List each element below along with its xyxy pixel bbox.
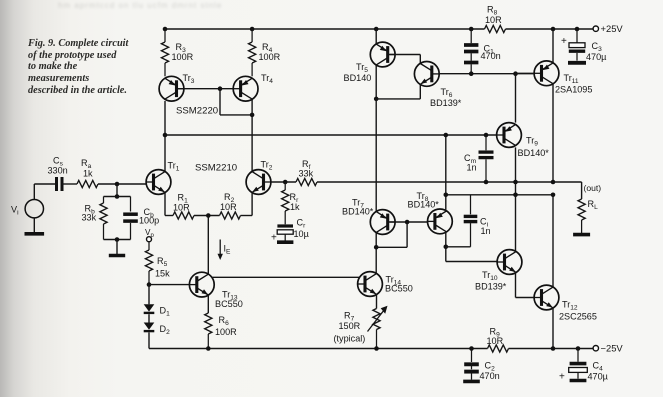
wire Tr5-collector node down to Tr7 emitter xyxy=(375,99,377,212)
transistor Tr10 BD139* (NPN) xyxy=(475,250,522,292)
svg-text:330n: 330n xyxy=(48,166,68,176)
diode D2 xyxy=(144,323,170,337)
wire Tr10 emitter to Tr12 base xyxy=(516,272,535,297)
node Tr3 collector / Tr9 base line xyxy=(163,133,168,138)
transistor Tr9 BD140* (PNP) xyxy=(497,123,550,158)
svg-text:SSM2210: SSM2210 xyxy=(195,163,237,174)
transistor Tr4 (SSM2220 PNP) xyxy=(233,73,273,101)
capacitor C2 470n xyxy=(463,349,500,382)
resistor Rb 33k xyxy=(82,197,108,240)
source Vi xyxy=(11,200,44,218)
wire out tap xyxy=(553,182,582,199)
wire Tr1 emitter down xyxy=(165,192,173,215)
svg-text:BD140*: BD140* xyxy=(518,148,550,158)
svg-text:10µ: 10µ xyxy=(294,229,310,239)
terminal +25V xyxy=(593,23,623,34)
node rail/C3 xyxy=(575,27,580,32)
capacitor Cs 330n xyxy=(48,156,68,192)
capacitor Cb 100p xyxy=(123,197,159,240)
svg-text:10R: 10R xyxy=(220,202,237,212)
wire Tr11 collector down to output xyxy=(552,84,554,183)
wire +25V rail xyxy=(165,28,593,30)
capacitor Ci 1n xyxy=(464,195,491,247)
terminal Vp xyxy=(145,228,154,242)
svg-text:2SA1095: 2SA1095 xyxy=(555,84,592,94)
resistor RL xyxy=(578,199,598,233)
svg-text:(typical): (typical) xyxy=(334,333,366,343)
svg-text:BD140*: BD140* xyxy=(408,199,440,209)
node C1 bottom xyxy=(469,71,474,76)
node network bottom xyxy=(115,237,120,242)
resistor Rr 1k xyxy=(282,182,300,224)
wire Vi to ground xyxy=(33,218,35,233)
node Tr4 collector junction xyxy=(250,113,255,118)
svg-text:100R: 100R xyxy=(215,327,237,337)
svg-text:1k: 1k xyxy=(83,168,93,178)
node Tr9 collector / line1 xyxy=(513,180,518,185)
wire rail to Tr5 emitter xyxy=(375,29,377,44)
wire Rf to output node (long) xyxy=(317,181,553,183)
ground below RL xyxy=(573,233,590,237)
resistor R6 100R xyxy=(205,313,237,349)
svg-text:1n: 1n xyxy=(467,162,477,172)
resistor Ra 1k xyxy=(62,158,146,188)
wire Tr8 emitter up to Tr9-base line xyxy=(445,135,447,211)
node rail/Tr5 emitter xyxy=(374,27,379,32)
transistor Tr13 BC550 xyxy=(189,272,242,309)
node rail/R7 xyxy=(374,346,379,351)
wire tap down to Rb/Cb network xyxy=(116,184,118,197)
capacitor C4 470u electrolytic xyxy=(559,349,609,383)
svg-text:10R: 10R xyxy=(485,15,502,25)
resistor R9 10R xyxy=(487,327,509,353)
node rail/C4 xyxy=(576,346,581,351)
wire line2 Tr8 emitter to output xyxy=(446,194,553,196)
svg-text:Tr4: Tr4 xyxy=(261,73,273,85)
node rail/C2 xyxy=(469,346,474,351)
wire Tr12 emitter to -25V rail xyxy=(552,308,554,349)
node rail/R3 xyxy=(163,27,168,32)
node rail/R6 xyxy=(206,346,211,351)
svg-text:100p: 100p xyxy=(139,216,159,226)
wire network bottom to ground xyxy=(116,240,118,255)
svg-text:10R: 10R xyxy=(487,336,504,346)
svg-text:470µ: 470µ xyxy=(586,52,607,62)
current arrow IE xyxy=(218,240,232,261)
wire Ci bottom to Tr8 collector node xyxy=(446,246,471,248)
diode D1 xyxy=(144,304,170,317)
transistor Tr11 2SA1095 (PNP) xyxy=(534,61,592,94)
svg-text:RL: RL xyxy=(588,199,599,211)
wire Tr8 collector down xyxy=(445,232,447,247)
svg-text:Cr: Cr xyxy=(297,218,307,230)
wire network top bar xyxy=(104,196,131,198)
node input/Rb-Cb tap xyxy=(115,182,120,187)
svg-text:D2: D2 xyxy=(160,324,171,336)
node Tr3/Tr4 base tie xyxy=(218,86,223,91)
svg-text:15k: 15k xyxy=(155,268,170,278)
svg-text:Tr1: Tr1 xyxy=(168,161,180,173)
svg-text:BD140*: BD140* xyxy=(342,206,374,216)
svg-text:−25V: −25V xyxy=(601,343,624,354)
node Tr8 collector / Ci bottom xyxy=(444,245,449,250)
node feedback xyxy=(283,180,288,185)
svg-text:D1: D1 xyxy=(160,306,171,318)
wire Tr5 collector down xyxy=(375,65,377,99)
svg-text:Tr9: Tr9 xyxy=(526,136,538,148)
node line/Cm top xyxy=(484,133,489,138)
svg-text:470n: 470n xyxy=(480,371,500,381)
resistor R1 10R xyxy=(173,193,194,220)
transistor Tr8 BD140* (PNP) xyxy=(408,191,453,234)
svg-text:+25V: +25V xyxy=(601,23,624,34)
svg-text:100R: 100R xyxy=(259,52,281,62)
svg-text:Tr12: Tr12 xyxy=(562,300,578,312)
wire Tr14 emitter to R7 xyxy=(376,294,378,308)
wire base tie down to Tr4 collector xyxy=(220,89,252,115)
svg-text:+: + xyxy=(271,232,277,243)
node rail/C1 xyxy=(469,27,474,32)
transistor Tr5 BD140 (PNP, mirrored) xyxy=(344,42,396,83)
node Tr11 base / x515 branch xyxy=(513,71,518,76)
svg-text:+: + xyxy=(561,36,567,47)
transistor Tr14 BC550 xyxy=(358,272,413,297)
wire Tr6 base to Tr11 base xyxy=(439,73,534,75)
node emitter junction (tail) xyxy=(206,213,211,218)
wire tail down to Tr13 collector xyxy=(207,216,209,275)
svg-text:BD140: BD140 xyxy=(344,73,372,83)
capacitor Cr 10u electrolytic xyxy=(271,218,310,244)
svg-text:BC550: BC550 xyxy=(215,299,243,309)
node line2/output xyxy=(551,193,556,198)
terminal -25V xyxy=(593,343,623,354)
svg-text:Tr3: Tr3 xyxy=(183,73,195,85)
wire Tr11 base xyxy=(516,72,535,74)
capacitor C3 470u electrolytic xyxy=(561,29,607,63)
node line/Tr8 emitter branch xyxy=(444,133,449,138)
wire Tr3 collector down to Tr1 collector xyxy=(164,101,166,172)
svg-text:2SC2565: 2SC2565 xyxy=(559,311,597,321)
wire Tr9 base line (y=135) xyxy=(165,134,497,136)
svg-text:150R: 150R xyxy=(339,321,361,331)
wire Tr7 collector down xyxy=(375,232,377,274)
resistor R4 xyxy=(249,29,281,76)
wire Tr5 base to Tr6 collector xyxy=(390,55,421,64)
node R5/D1/Tr13 base xyxy=(147,282,152,287)
wire R1 to R2 xyxy=(194,215,220,217)
node Tr5 collector / Tr6 emitter xyxy=(374,97,379,102)
capacitor C1 470n xyxy=(464,29,501,74)
wire Tr3 base to Tr4 base xyxy=(178,88,233,90)
node Tr8 emitter / line2 xyxy=(444,193,449,198)
svg-text:470µ: 470µ xyxy=(588,372,609,382)
label SSM2220 xyxy=(176,106,218,117)
resistor R2 10R xyxy=(220,192,241,219)
node Tr7 collector / Tr14 collector xyxy=(374,245,379,250)
wire Tr4 collector down to Tr2 collector xyxy=(251,99,253,172)
ground below network xyxy=(109,254,125,258)
wire Tr13 to Tr14 link xyxy=(212,276,360,278)
wire x515 down to Tr10 collector xyxy=(515,195,517,252)
ground below Vi xyxy=(25,232,45,236)
node output line1 xyxy=(551,180,556,185)
transistor Tr12 2SC2565 (NPN) xyxy=(534,285,597,321)
svg-text:BC550: BC550 xyxy=(385,284,413,294)
wire Tr13 emitter to R6 xyxy=(207,295,209,313)
wire node to Tr13 base xyxy=(149,284,189,286)
svg-text:SSM2220: SSM2220 xyxy=(176,106,218,117)
svg-text:33k: 33k xyxy=(299,169,314,179)
ground below Cr xyxy=(277,240,293,244)
figure caption xyxy=(28,38,158,97)
transistor Tr3 (SSM2220 PNP) xyxy=(159,73,195,101)
resistor Rf 33k xyxy=(296,159,317,186)
wire network bottom bar xyxy=(104,239,131,241)
node network top xyxy=(115,194,120,199)
svg-text:33k: 33k xyxy=(82,213,97,223)
capacitor Cm 1n xyxy=(464,135,494,182)
svg-text:1n: 1n xyxy=(481,226,491,236)
svg-text:R6: R6 xyxy=(219,315,230,327)
wire R2 to Tr2 emitter xyxy=(241,192,253,215)
svg-text:470n: 470n xyxy=(481,51,501,61)
transistor Tr6 BD139 (NPN, mirrored) xyxy=(414,62,461,108)
wire Tr7 base to Tr8 base xyxy=(390,221,428,223)
node Cm bottom / line1 xyxy=(484,180,489,185)
wire Tr12 collector up to output xyxy=(552,195,554,287)
svg-text:100R: 100R xyxy=(172,52,194,62)
wire Tr8 collector node to Tr10 base xyxy=(446,247,497,262)
svg-text:BD139*: BD139* xyxy=(430,98,462,108)
wire node down to Tr9 emitter xyxy=(515,74,517,123)
wire -25V rail xyxy=(149,348,593,350)
wire Tr2 base to feedback node xyxy=(271,181,296,183)
transistor Tr2 (SSM2210 NPN, mirrored) xyxy=(246,160,273,195)
svg-text:R5: R5 xyxy=(157,256,168,268)
node rail/Tr11 emitter xyxy=(551,27,556,32)
wire Tr6 emitter to node xyxy=(376,84,420,99)
wire D1 to D2 xyxy=(148,314,150,322)
resistor R8 xyxy=(485,5,506,33)
resistor R3 xyxy=(161,29,193,76)
node rail/Tr12 emitter xyxy=(551,346,556,351)
svg-text:+: + xyxy=(559,372,565,383)
node rail/R4 xyxy=(250,27,255,32)
label SSM2210 xyxy=(195,163,237,174)
decor xyxy=(58,1,358,10)
wire base tie down to Tr7 collector xyxy=(376,222,407,247)
resistor R5 15k xyxy=(145,242,170,285)
transistor Tr1 (SSM2210 NPN) xyxy=(146,161,180,195)
wire D2 to -25V rail xyxy=(148,332,150,348)
wire Tr9 collector down xyxy=(515,147,517,194)
node line2/x515 xyxy=(513,193,518,198)
transistor Tr7 BD140* (PNP, mirrored) xyxy=(342,198,395,235)
svg-text:Vi: Vi xyxy=(11,205,19,217)
svg-text:BD139*: BD139* xyxy=(475,281,507,291)
node Tr7 base tie xyxy=(405,220,410,225)
wire node down to D1 xyxy=(148,285,150,305)
label out xyxy=(584,183,602,193)
svg-text:10R: 10R xyxy=(173,202,190,212)
svg-text:IE: IE xyxy=(224,244,232,256)
wire Vi to Cs xyxy=(34,184,55,200)
svg-text:1k: 1k xyxy=(290,202,300,212)
svg-text:(out): (out) xyxy=(584,183,602,193)
variable resistor R7 150R xyxy=(334,306,388,349)
wire rail to Tr11 emitter xyxy=(552,29,554,63)
